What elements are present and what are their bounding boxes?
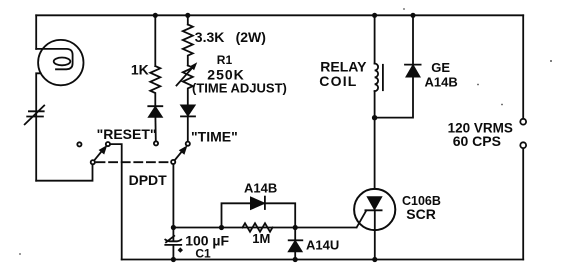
DPDT mechanical link (dashed) [97, 161, 171, 163]
svg-text:(TIME ADJUST): (TIME ADJUST) [192, 81, 287, 96]
AC plug P1 [29, 110, 44, 112]
wire: right vertical lower from terminal to bottom rail [522, 148, 524, 259]
wire: bottom-left run to switch pivot [36, 164, 92, 180]
svg-text:1K: 1K [131, 61, 149, 77]
node: bottom rail / SCR [372, 257, 377, 262]
svg-text:3.3K: 3.3K [195, 29, 225, 45]
node: top rail / GE diode [410, 13, 415, 18]
wire: relay column top [374, 15, 376, 63]
switch S1a moving contact [106, 142, 110, 146]
node: cap / gate line [171, 225, 176, 230]
svg-text:SCR: SCR [406, 206, 436, 222]
switch S1b arm [175, 149, 184, 160]
svg-text:COIL: COIL [319, 73, 357, 89]
wire: 1K column top [154, 15, 156, 66]
relay coil K1 [375, 64, 379, 92]
SCR anode-cathode [368, 197, 381, 209]
switch S1b throw contact RESET column [154, 141, 158, 145]
switch S1a throw contact (open, RESET side) [77, 142, 81, 146]
wire: diode to contact [154, 117, 156, 141]
wire: bottom rail [122, 259, 524, 261]
wire: SCR cathode to bottom rail [374, 210, 376, 259]
wire: A14B branch [222, 203, 296, 227]
diode CR2 (TIME) [181, 105, 194, 115]
switch S1b throw contact TIME column [186, 142, 190, 146]
terminal: 120V upper [520, 119, 526, 125]
node: top rail / 3.3K [185, 13, 190, 18]
wire: S1b pivot down through capacitor column [172, 164, 174, 240]
node: bottom rail / cap [171, 257, 176, 262]
svg-text:(2W): (2W) [236, 29, 266, 45]
resistor 1M [243, 223, 273, 231]
SCR gate lead [357, 211, 367, 228]
SCR Q1 C106B envelope [354, 189, 395, 230]
diode CR1 (RESET) [148, 105, 162, 107]
wire: S1a contact to bottom rail [110, 144, 122, 259]
svg-text:"TIME": "TIME" [191, 129, 238, 145]
resistor 3.3K (2W) [183, 25, 193, 66]
diode CR4 A14U [294, 228, 296, 260]
wire: coil to SCR [374, 91, 376, 189]
switch S1a arm [94, 149, 104, 161]
wire: top rail [36, 14, 523, 16]
node: gate line / A14U [293, 225, 298, 230]
wire: gate line [173, 227, 356, 229]
svg-text:C1: C1 [195, 247, 211, 261]
wire: 3.3K column top [187, 15, 189, 24]
lamp DS1 envelope [38, 40, 83, 85]
resistor 1K [150, 66, 160, 106]
node: gate line / A14B left [219, 225, 224, 230]
svg-text:A14B: A14B [425, 75, 458, 90]
svg-text:GE: GE [431, 60, 450, 75]
switch S1b pivot [171, 160, 175, 164]
svg-text:"RESET": "RESET" [97, 126, 157, 142]
node: top rail / relay [372, 13, 377, 18]
wire: left vertical from top rail to lamp [35, 15, 37, 49]
capacitor C1 100uF [165, 240, 181, 242]
switch S1a pivot [91, 160, 95, 164]
svg-text:DPDT: DPDT [129, 172, 168, 188]
wire: diode to contact [187, 116, 189, 141]
node: top rail / 1K [153, 13, 158, 18]
node: relay coil / GE diode [372, 115, 377, 120]
svg-text:60 CPS: 60 CPS [453, 133, 501, 149]
svg-text:1M: 1M [252, 231, 270, 246]
capacitor polarity diamond [178, 247, 183, 252]
potentiometer R1 250K [183, 65, 193, 105]
svg-text:A14U: A14U [306, 238, 339, 253]
lamp filament [36, 49, 72, 69]
terminal: 120V lower [520, 142, 526, 148]
diode CR3 A14B [251, 198, 264, 209]
wire: lamp to plug [36, 73, 40, 180]
node: bottom rail / A14U [293, 257, 298, 262]
wire: right vertical upper to terminal [522, 15, 524, 119]
diode CR5 GE A14B [412, 15, 414, 64]
svg-text:R1: R1 [217, 53, 233, 67]
svg-text:A14B: A14B [244, 181, 277, 196]
